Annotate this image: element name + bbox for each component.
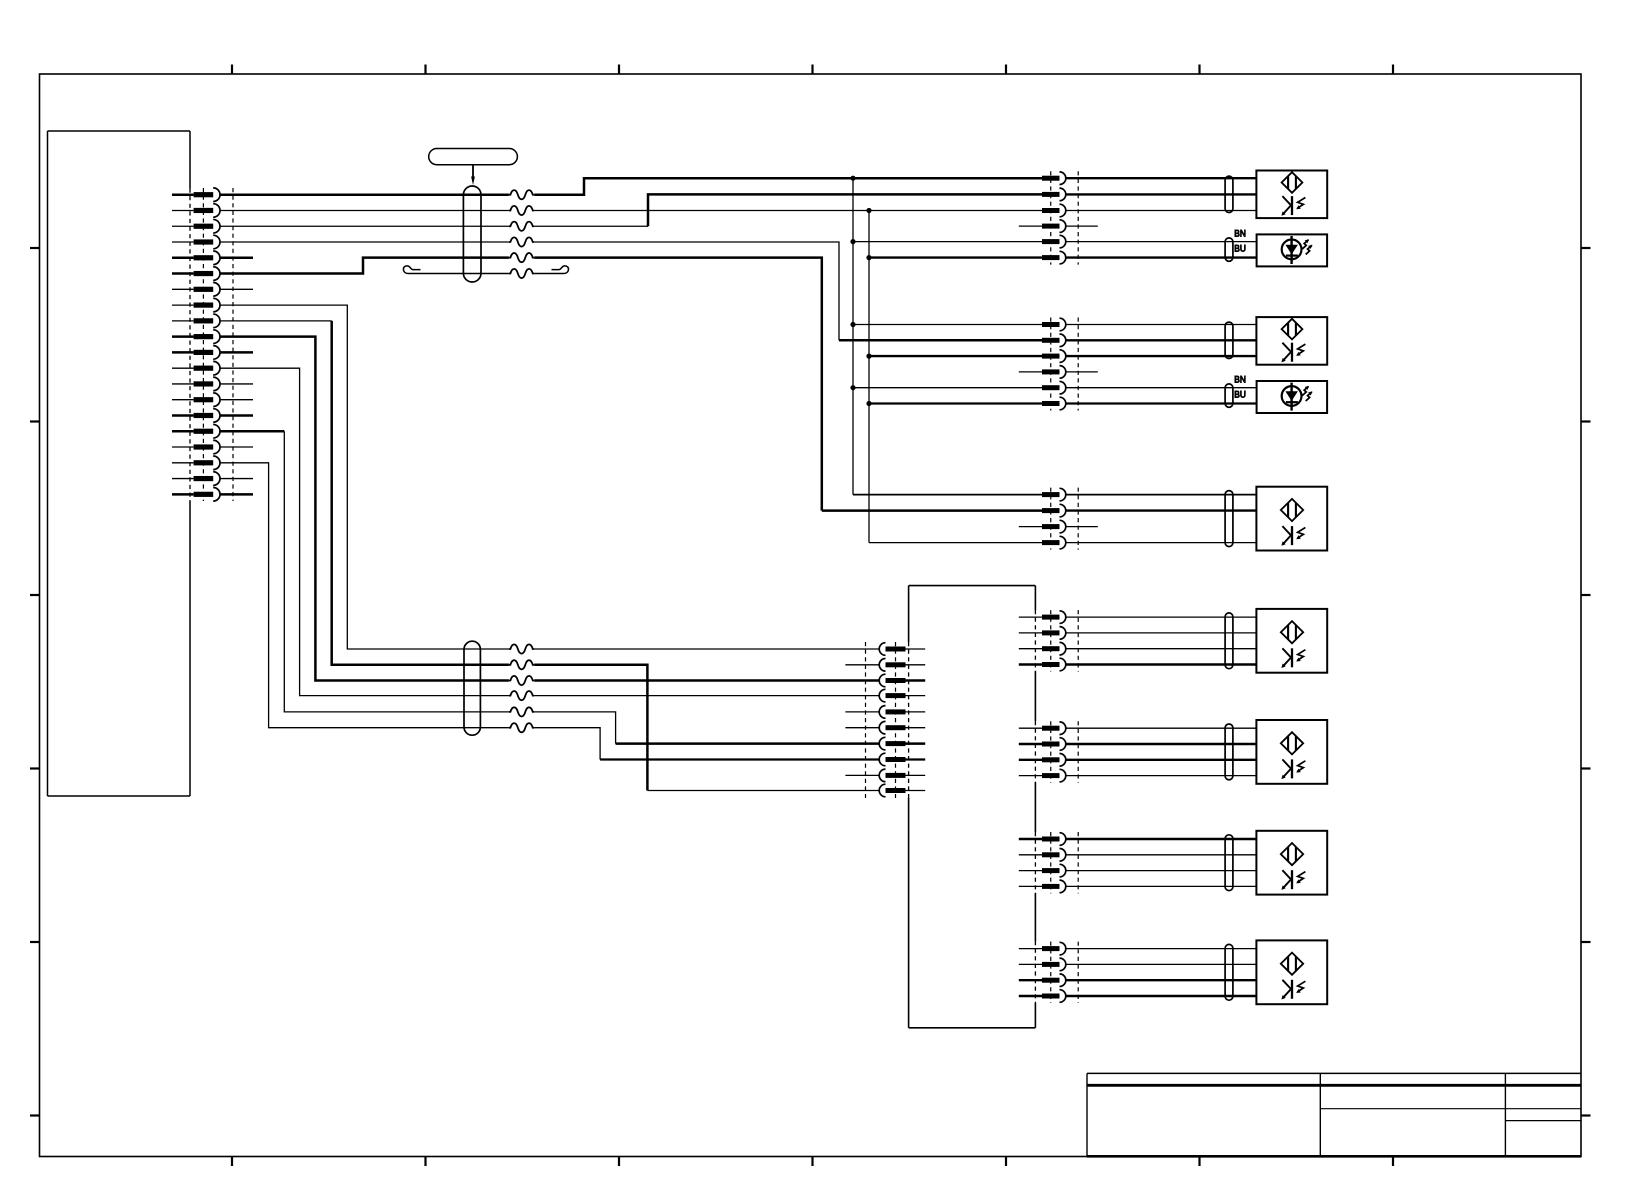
svg-text:BU: BU [1234,244,1246,254]
svg-text:BN: BN [1234,228,1246,238]
svg-text:BN: BN [1234,374,1246,384]
svg-text:BU: BU [1234,390,1246,400]
